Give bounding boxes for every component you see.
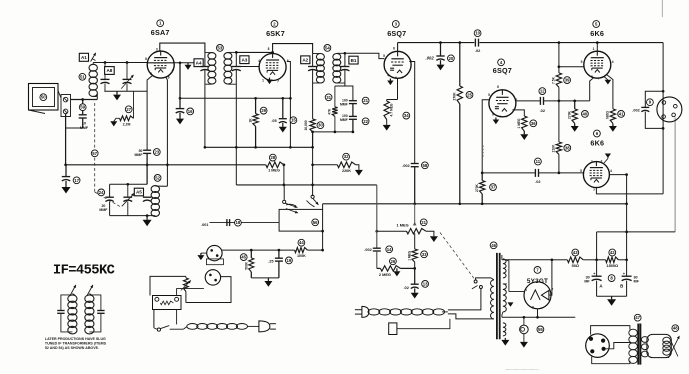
svg-text:.02: .02 (540, 108, 546, 113)
grid wire tube1 (93, 62, 147, 64)
tone cap C9 .002 (645, 91, 663, 107)
main bus wire4 (323, 203, 627, 205)
svg-text:57: 57 (92, 151, 97, 156)
capacitor C17 (65, 165, 67, 177)
tone switch box 56 (279, 209, 323, 231)
cap C20 to ground (440, 43, 442, 56)
V2 screen lead down (287, 62, 291, 148)
svg-text:59: 59 (80, 105, 85, 110)
screen dropping resistor R30 (312, 83, 314, 119)
heater wire (502, 316, 575, 318)
motor switch (153, 310, 155, 328)
svg-text:6: 6 (393, 47, 395, 51)
svg-text:.002: .002 (426, 55, 435, 60)
svg-text:48: 48 (673, 326, 678, 331)
IF transformer 54 primary (312, 53, 314, 66)
svg-text:14: 14 (387, 247, 392, 252)
wire terminal bottom down to AVC bus (65, 114, 67, 165)
svg-text:.002: .002 (632, 109, 639, 113)
resistor R40 270K (574, 101, 576, 109)
svg-text:22: 22 (363, 119, 368, 124)
terminal A3 (240, 56, 249, 64)
speaker field line gray (674, 118, 676, 232)
svg-text:1: 1 (593, 47, 595, 51)
motor cord (170, 328, 184, 330)
svg-text:MMF: MMF (340, 118, 348, 122)
svg-text:1 MEG: 1 MEG (407, 250, 411, 260)
V3 diode ground (389, 79, 391, 81)
svg-text:47: 47 (635, 315, 640, 320)
T46 HV winding (503, 259, 506, 278)
svg-text:28: 28 (270, 155, 275, 160)
V6 plate wire to socket (596, 188, 663, 194)
field resistor R43 50ohm (552, 259, 567, 261)
svg-text:6: 6 (497, 85, 499, 89)
IF transformer 53 secondary (224, 53, 232, 60)
svg-text:6K6: 6K6 (590, 29, 604, 38)
svg-text:6SQ7: 6SQ7 (387, 29, 406, 38)
svg-text:MMF: MMF (80, 126, 89, 130)
phase divider vertical (558, 43, 560, 73)
svg-text:7: 7 (277, 80, 279, 84)
AC twisted cord (368, 309, 380, 315)
voice coil box (647, 334, 671, 357)
svg-text:680Ω: 680Ω (606, 111, 610, 119)
svg-text:220K: 220K (342, 169, 351, 173)
svg-text:MMF: MMF (340, 103, 348, 107)
V5 grid return wire (590, 78, 593, 101)
svg-text:1K: 1K (248, 118, 252, 123)
svg-text:53: 53 (218, 45, 223, 50)
power transformer 46 core (496, 253, 498, 339)
V2 top junction to T54 primary (271, 51, 274, 54)
svg-text:13: 13 (423, 281, 428, 286)
svg-text:17: 17 (74, 178, 79, 183)
svg-text:43: 43 (573, 250, 578, 255)
AC line to switch (448, 288, 481, 310)
terminal A8 (105, 67, 115, 75)
T47 primary winding (629, 329, 638, 336)
T47 secondary winding (641, 337, 648, 343)
svg-text:.002: .002 (402, 163, 410, 168)
V2 designator (271, 20, 278, 27)
svg-text:2 MEG: 2 MEG (379, 272, 391, 277)
svg-text:11: 11 (536, 159, 541, 164)
IF transformer 53 primary (204, 52, 206, 66)
svg-text:19: 19 (287, 258, 292, 263)
speaker plug bottom lead (592, 357, 630, 364)
phono pickup box 50 (29, 84, 59, 111)
svg-text:50: 50 (41, 95, 46, 100)
wire R30 down through AVC (312, 147, 314, 196)
svg-text:21: 21 (363, 98, 368, 103)
svg-text:6SK7: 6SK7 (266, 29, 285, 38)
oscillator tank bottom wire (110, 215, 156, 217)
svg-text:.02: .02 (475, 48, 481, 53)
svg-text:33: 33 (422, 252, 427, 257)
on-off switch (479, 286, 482, 289)
diode load resistor R34 4.7MEG (397, 78, 399, 99)
svg-text:3: 3 (156, 48, 158, 52)
svg-text:1 MEG: 1 MEG (268, 169, 280, 173)
cathode bus wire (180, 97, 290, 99)
motor rheostat (184, 278, 189, 292)
T46 heater winding (503, 323, 506, 336)
svg-text:23: 23 (154, 150, 159, 155)
V1 designator (157, 20, 164, 27)
voice coil 48 (663, 337, 671, 343)
V6 screen wire right (609, 174, 626, 176)
cathode bypass cap C15 (281, 97, 284, 100)
svg-text:38: 38 (565, 145, 570, 150)
svg-text:A2: A2 (302, 57, 308, 62)
svg-text:50Ω: 50Ω (572, 263, 579, 268)
osc trimmer cap (127, 184, 129, 197)
osc tank cap right (143, 196, 151, 198)
tube V6 6K6 (583, 162, 609, 188)
svg-text:A1: A1 (81, 55, 87, 60)
loop antenna coil 51 (89, 64, 97, 71)
svg-text:41: 41 (619, 111, 624, 116)
svg-text:8: 8 (268, 47, 270, 51)
tube V7 5Y3GT (524, 282, 551, 309)
svg-text:270K: 270K (568, 110, 572, 119)
svg-text:10: 10 (475, 31, 480, 36)
resistor R31 47K (335, 85, 353, 87)
rheostat feed wire (150, 276, 186, 295)
svg-text:.25: .25 (268, 259, 273, 263)
svg-text:47K: 47K (327, 108, 331, 115)
svg-text:1: 1 (262, 79, 264, 83)
V2 ground below (269, 78, 271, 80)
svg-text:32: 32 (344, 154, 349, 159)
volume wiper from bus (414, 204, 416, 226)
resistor R44 100K (295, 248, 308, 253)
svg-text:5: 5 (383, 54, 385, 58)
grid resistor R27 2.2M (133, 91, 135, 115)
svg-text:TUNED IF TRANSFORMERS (ITEMS: TUNED IF TRANSFORMERS (ITEMS (45, 342, 107, 346)
svg-text:B1: B1 (351, 58, 357, 63)
svg-text:A3: A3 (241, 57, 247, 62)
svg-text:51: 51 (80, 74, 85, 79)
V1 cathode lead to cap 23 (147, 76, 152, 150)
screen B+ bus wire1 (204, 85, 206, 148)
svg-text:10,000: 10,000 (304, 120, 308, 130)
terminal A4 (194, 59, 203, 67)
svg-text:1 MEG: 1 MEG (517, 118, 521, 128)
svg-text:34: 34 (404, 113, 409, 118)
T46 primary winding (490, 280, 493, 319)
V5 cathode ground (604, 77, 608, 80)
tube V4 6SQ7 (489, 90, 516, 117)
V3 designator (392, 21, 399, 28)
svg-text:MF: MF (584, 280, 590, 284)
V7 cathode lead down (537, 309, 539, 318)
speaker socket feed B+ (662, 43, 664, 194)
motor plug (259, 321, 270, 332)
svg-text:A4: A4 (196, 60, 202, 65)
resistor R25 270K (459, 43, 461, 86)
wire coil51 bottom to pickup line (83, 99, 98, 101)
svg-text:12: 12 (540, 89, 545, 94)
resistor R41 680 (607, 75, 613, 109)
svg-text:40: 40 (583, 111, 588, 116)
svg-text:1800Ω: 1800Ω (606, 263, 618, 268)
wire pickup box to terminals (58, 91, 61, 99)
svg-text:5: 5 (488, 93, 490, 97)
wire3 down to cap14 (376, 185, 378, 248)
osc tank ground (146, 216, 148, 220)
slug tuned IF coil left (68, 295, 77, 303)
svg-text:26: 26 (391, 259, 396, 264)
V1 pin4 wire and ground (173, 62, 194, 64)
tone cap C18 (210, 222, 280, 224)
svg-text:52 AND 54) AS SHOWN ABOVE.: 52 AND 54) AS SHOWN ABOVE. (45, 346, 99, 350)
cathode resistor R29 (254, 97, 257, 100)
phono motor (153, 296, 182, 310)
speaker socket (657, 97, 682, 122)
speaker plug (586, 334, 610, 358)
svg-text:.001: .001 (201, 223, 208, 227)
V2 grid wire (240, 66, 258, 68)
resistor R38 220K (556, 142, 561, 154)
diode load chain caps C21 C22 (345, 83, 353, 100)
svg-text:100K: 100K (297, 254, 306, 258)
V4 cathode resistor R36 1MEG (512, 110, 524, 116)
svg-text:LATER PRODUCTIONS HAVE SLUG: LATER PRODUCTIONS HAVE SLUG (45, 337, 106, 341)
capacitor C59 10MMF (79, 114, 87, 116)
gang dashed link (94, 103, 96, 149)
ground at R26 (396, 268, 398, 271)
svg-text:560K: 560K (244, 261, 248, 269)
capacitor C23 50MMF (143, 149, 151, 151)
svg-text:21: 21 (421, 220, 426, 225)
R45 C19 ground (251, 277, 279, 279)
switch box to phono wire (322, 231, 324, 250)
jack ground (201, 252, 207, 254)
speaker plug top lead (591, 326, 630, 335)
svg-text:4: 4 (612, 60, 614, 64)
resistor R32 220K (313, 164, 338, 166)
svg-text:20: 20 (449, 56, 454, 61)
V4 ground below (495, 118, 497, 120)
svg-text:44: 44 (299, 240, 304, 245)
resistor R45 (250, 250, 252, 258)
resistor R33 (414, 233, 416, 249)
filter cap 8B 30MF (626, 260, 628, 276)
osc padder cap 24 (109, 184, 111, 197)
svg-text:MF: MF (634, 280, 640, 284)
speaker plug center lead (606, 343, 631, 349)
switch contacts left (283, 185, 285, 200)
antenna terminal A1 (79, 53, 88, 61)
oscillator tank top wire (110, 183, 148, 185)
V1 pin6 lead to osc coil (166, 77, 168, 187)
V1 plate wire to T53 (160, 43, 205, 52)
svg-text:18: 18 (236, 220, 241, 225)
AVC resistor R28 1MEG (266, 162, 284, 168)
V5 designator (593, 21, 600, 28)
V6 designator (594, 130, 601, 137)
resistor R39 (556, 73, 561, 87)
V7 designator (534, 267, 541, 274)
svg-text:27: 27 (126, 107, 131, 112)
svg-text:2.2M: 2.2M (123, 122, 131, 126)
interlock receptacle (389, 323, 397, 335)
AC plug (355, 309, 362, 311)
tube V5 6K6 (584, 51, 611, 78)
tube V1 6SA7 (147, 51, 174, 78)
AVC bus wire2 (66, 164, 266, 166)
svg-text:270K: 270K (452, 92, 456, 101)
svg-text:56: 56 (313, 220, 318, 225)
svg-text:4.7 MEG: 4.7 MEG (390, 103, 394, 116)
svg-text:6SA7: 6SA7 (151, 28, 170, 37)
svg-text:5Y3GT: 5Y3GT (527, 278, 548, 285)
svg-text:.05: .05 (271, 119, 276, 123)
cap C13 .02 (414, 268, 416, 284)
wire HV top to R43 row (502, 259, 552, 261)
svg-text:7.5K: 7.5K (552, 76, 556, 84)
AC line to interlock (448, 314, 491, 319)
V4 plate wire with cap C12 (516, 100, 540, 102)
wire T54 secondary top to V3 grid (344, 52, 347, 55)
filter cap 8A 30MF (596, 260, 598, 276)
svg-text:30: 30 (318, 123, 323, 128)
svg-text:6SQ7: 6SQ7 (493, 66, 512, 75)
svg-text:.02: .02 (403, 285, 409, 290)
cap C14 .002 (373, 247, 381, 249)
terminal B1 (349, 56, 358, 64)
wire R28 to wire3 (283, 165, 285, 185)
wire T53 secondary top to V2 (236, 51, 272, 53)
svg-text:6K6: 6K6 (590, 139, 604, 148)
tube V3 6SQ7 (384, 51, 411, 78)
svg-text:10: 10 (82, 122, 86, 126)
wire cap23 to osc tank (146, 165, 148, 185)
svg-text:6: 6 (168, 76, 170, 80)
svg-text:25: 25 (467, 92, 472, 97)
svg-text:B: B (620, 284, 623, 289)
filter caps ground (597, 295, 627, 297)
V3 plate lead to cap C58 (409, 62, 414, 164)
svg-text:4: 4 (610, 169, 612, 173)
svg-text:58: 58 (423, 163, 428, 168)
svg-text:MMF: MMF (99, 208, 108, 212)
svg-text:5: 5 (150, 72, 152, 76)
vertical to output junctions (626, 175, 628, 260)
svg-text:IF=455KC: IF=455KC (53, 264, 115, 279)
svg-text:4: 4 (258, 59, 260, 63)
phono motor jack (205, 270, 220, 285)
svg-text:A8: A8 (106, 68, 112, 73)
wire antenna cell bottom (104, 90, 147, 92)
V6 top ground (604, 159, 608, 164)
svg-text:54: 54 (325, 45, 330, 50)
antenna lead arrow (91, 53, 96, 62)
output transformer 47 core (637, 324, 639, 365)
svg-text:52: 52 (155, 175, 160, 180)
svg-text:15: 15 (291, 118, 296, 123)
wire T53 secondary bottom down (235, 84, 237, 185)
oscillator coil 52 (151, 186, 159, 193)
svg-text:37: 37 (491, 185, 496, 190)
filter resistor R42 1800ohm (606, 257, 619, 263)
svg-text:8: 8 (145, 57, 147, 61)
node 57 gang (91, 150, 98, 157)
svg-text:220K: 220K (552, 144, 556, 152)
svg-text:.002: .002 (364, 248, 371, 252)
svg-text:5: 5 (580, 169, 582, 173)
cap C16 branch (179, 61, 182, 64)
resistor R26 2MEG (377, 267, 381, 269)
T46 ground (504, 338, 506, 340)
terminal A5 (134, 188, 143, 196)
V4 grid wire down to R37 (482, 100, 489, 173)
cap C19 .25 (278, 250, 280, 258)
svg-text:16: 16 (188, 109, 193, 114)
svg-text:42: 42 (610, 250, 615, 255)
shield mark (482, 145, 484, 157)
V7 output lead to R43 (550, 260, 553, 295)
phono signal wire (222, 249, 295, 251)
svg-text:270K: 270K (475, 183, 479, 192)
svg-text:5: 5 (581, 60, 583, 64)
cap C58 .002 (411, 163, 419, 165)
svg-text:.02: .02 (535, 179, 541, 184)
svg-text:29: 29 (261, 108, 266, 113)
svg-text:45: 45 (241, 255, 246, 260)
volume control 1MEG (375, 230, 378, 233)
motor link to jack (177, 289, 204, 296)
svg-text:36: 36 (531, 121, 536, 126)
pilot lamp 55 (523, 317, 525, 325)
svg-text:31: 31 (326, 95, 331, 100)
phono input jack (207, 245, 222, 260)
V7 plate lead (509, 291, 524, 293)
V4 designator (498, 59, 505, 66)
pickup terminal strip (61, 95, 71, 117)
detector return wire (313, 131, 353, 133)
svg-text:55: 55 (538, 327, 543, 332)
wire terminal to cap 59 (71, 99, 83, 101)
B+ top bus (397, 43, 399, 52)
svg-text:4: 4 (172, 69, 174, 73)
antenna trimmer cap fixed (104, 63, 106, 67)
slug tuned IF coil right (85, 295, 94, 303)
output junction wire (597, 231, 676, 233)
svg-text:..............................: ...................................... (505, 367, 539, 371)
svg-text:46: 46 (491, 243, 496, 248)
IF transformer 54 secondary (333, 54, 341, 61)
V1 grid through wire (147, 62, 174, 64)
scan artifact (661, 0, 663, 17)
terminal A2 (301, 56, 310, 64)
switch contacts right (311, 195, 314, 198)
V5 grid wire (559, 66, 584, 68)
svg-text:1 MEG: 1 MEG (397, 222, 409, 227)
svg-text:24: 24 (99, 190, 104, 195)
AF bus wire3 (236, 184, 376, 186)
V5 plate to B+ top (596, 43, 598, 52)
coupling cap C10 (474, 39, 476, 47)
tube V2 6SK7 (259, 54, 286, 81)
svg-text:MMF: MMF (135, 153, 144, 157)
V6 grid coupling wire with cap C11 (482, 172, 535, 174)
T46 filament winding (503, 284, 506, 312)
motor jack wires (186, 277, 231, 303)
switch link line (440, 233, 475, 281)
